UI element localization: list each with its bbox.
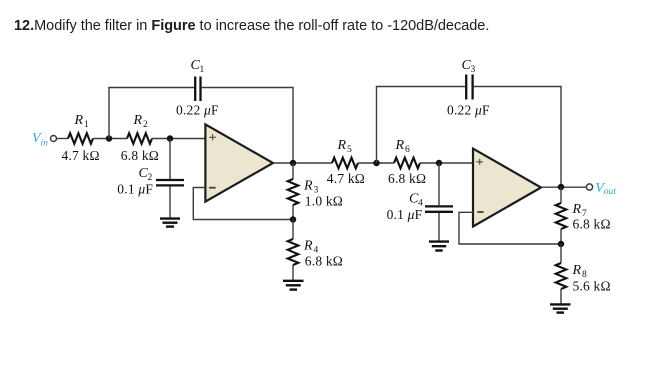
- label 6.8 kOhm (R2): [121, 148, 159, 163]
- label C3: [462, 58, 476, 75]
- wire node A up to C1: [108, 88, 110, 139]
- op-amp U2: [473, 149, 541, 227]
- label 0.22 uF (C3): [447, 102, 490, 117]
- wire top left to C3: [376, 86, 465, 88]
- wire R8 to ground: [560, 289, 562, 304]
- svg-text:5: 5: [347, 145, 352, 155]
- node F junction after R6: [436, 160, 443, 167]
- svg-text:6.8 kΩ: 6.8 kΩ: [388, 171, 426, 186]
- label Vout: [595, 181, 616, 197]
- resistor R2: [127, 133, 152, 144]
- svg-text:R: R: [74, 113, 84, 128]
- svg-text:1.0 kΩ: 1.0 kΩ: [305, 193, 343, 208]
- capacitor C2: [156, 180, 184, 185]
- label C4: [409, 191, 423, 208]
- node E junction after R5: [373, 160, 380, 167]
- label 6.8 kOhm (R4): [305, 254, 343, 269]
- node C op-amp1 output junction: [290, 160, 297, 167]
- resistor R7: [556, 203, 567, 229]
- label C2: [139, 166, 153, 183]
- wire C3 to right vertical: [474, 86, 561, 88]
- svg-text:0.1 μF: 0.1 μF: [387, 207, 423, 222]
- ground under R8: [550, 304, 571, 312]
- ground under R4: [283, 281, 304, 290]
- ground under C4: [429, 242, 449, 251]
- svg-text:6.8 kΩ: 6.8 kΩ: [305, 254, 343, 269]
- node D junction R3 R4: [290, 216, 297, 223]
- resistor R6: [394, 158, 420, 169]
- label 1.0 kOhm (R3): [305, 193, 343, 208]
- label 6.8 kOhm (R6): [388, 171, 426, 186]
- wire node C down to R3: [292, 163, 294, 179]
- wire R3 to node D: [292, 205, 294, 220]
- svg-text:R: R: [303, 178, 313, 193]
- wire U2 minus input feedback: [459, 212, 561, 244]
- wire node D to R4: [292, 220, 294, 240]
- wire Vin to R1: [57, 138, 69, 140]
- node H junction R7 R8: [558, 241, 565, 248]
- label R3: [303, 178, 319, 195]
- svg-text:6: 6: [405, 145, 410, 155]
- resistor R3: [288, 179, 299, 205]
- svg-text:0.22 μF: 0.22 μF: [447, 102, 490, 117]
- wire C4 to ground: [438, 213, 440, 241]
- svg-text:in: in: [41, 138, 49, 148]
- wire C3 right down to node G: [560, 86, 562, 188]
- svg-text:3: 3: [471, 65, 476, 75]
- label C1: [191, 58, 205, 75]
- node Vin input terminal: [51, 136, 57, 142]
- label 0.22 uF (C1): [176, 102, 219, 117]
- label 6.8 kOhm (R7): [573, 216, 611, 231]
- resistor R1: [68, 133, 93, 144]
- label R5: [337, 138, 353, 155]
- wire node G down to R7: [560, 187, 562, 203]
- label 4.7 kOhm (R1): [62, 148, 100, 163]
- capacitor C3: [466, 75, 472, 100]
- node G op-amp2 output junction: [558, 184, 565, 191]
- svg-text:R: R: [337, 138, 347, 153]
- capacitor C4: [425, 206, 453, 211]
- resistor R8: [556, 263, 567, 289]
- svg-text:2: 2: [143, 120, 148, 130]
- label Vin: [32, 131, 48, 148]
- label 4.7 kOhm (R5): [327, 171, 365, 186]
- svg-text:0.22 μF: 0.22 μF: [176, 102, 219, 117]
- svg-text:4.7 kΩ: 4.7 kΩ: [327, 171, 365, 186]
- svg-text:4.7 kΩ: 4.7 kΩ: [62, 148, 100, 163]
- svg-text:R: R: [572, 202, 582, 217]
- label R2: [133, 113, 149, 130]
- svg-text:R: R: [303, 238, 313, 253]
- ground under C2: [160, 219, 180, 227]
- wire R2 to op-amp U1 plus input: [152, 138, 205, 140]
- op-amp U1: [205, 124, 273, 201]
- wire C2 to ground: [169, 187, 171, 219]
- label R4: [303, 238, 319, 255]
- node Vout output terminal: [586, 184, 592, 190]
- label 0.1 uF (C2): [117, 181, 153, 196]
- wire R6 to op-amp U2 plus input: [420, 162, 473, 164]
- title text: [14, 19, 489, 34]
- label 5.6 kOhm (R8): [573, 278, 611, 293]
- wire R5 to R6: [358, 162, 394, 164]
- svg-text:1: 1: [200, 65, 205, 75]
- svg-text:R: R: [395, 138, 405, 153]
- label R1: [74, 113, 90, 130]
- wire R7 to node H: [560, 229, 562, 244]
- label R7: [572, 202, 588, 219]
- wire R4 to ground: [292, 265, 294, 280]
- wire top left to C1: [108, 87, 194, 89]
- wire node H to R8: [560, 244, 562, 263]
- wire C1 to right vertical: [202, 87, 293, 89]
- node B junction after R2: [167, 135, 174, 142]
- label R6: [395, 138, 411, 155]
- svg-text:6.8 kΩ: 6.8 kΩ: [573, 216, 611, 231]
- svg-text:0.1 μF: 0.1 μF: [117, 181, 153, 196]
- wire U2 output to Vout: [541, 186, 586, 188]
- wire C1 right down to node C: [292, 87, 294, 163]
- wire node E up to C3: [376, 87, 378, 164]
- svg-text:6.8 kΩ: 6.8 kΩ: [121, 148, 159, 163]
- wire node F down to C4: [438, 163, 440, 205]
- wire node B down to C2: [169, 139, 171, 180]
- resistor R5: [332, 158, 358, 169]
- node A junction after R1: [106, 135, 113, 142]
- svg-text:R: R: [133, 113, 143, 128]
- svg-text:1: 1: [84, 120, 89, 130]
- wire U1 minus input feedback: [193, 188, 293, 220]
- svg-text:R: R: [572, 263, 582, 278]
- resistor R4: [288, 239, 299, 265]
- label R8: [572, 263, 588, 280]
- wire R1 to R2: [93, 138, 127, 140]
- svg-text:out: out: [604, 187, 617, 197]
- label 0.1 uF (C4): [387, 207, 423, 222]
- capacitor C1: [195, 77, 200, 102]
- wire U1 output to R5: [273, 162, 332, 164]
- svg-text:5.6 kΩ: 5.6 kΩ: [573, 278, 611, 293]
